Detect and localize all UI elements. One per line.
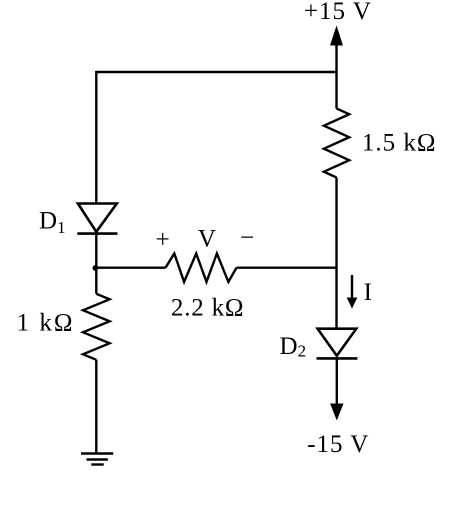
wire D1 to node [95,234,97,269]
svg-text:+: + [156,226,170,253]
wire resistor to right rail (middle right) [237,267,338,269]
wire node to resistor (middle left) [96,267,165,269]
svg-text:D2: D2 [280,333,307,361]
svg-text:−: − [240,225,254,252]
wire node to 1k resistor [95,268,97,294]
diode D1 [77,204,117,234]
current arrow I [347,275,358,309]
wire left rail upper [95,71,97,203]
svg-text:D1: D1 [39,208,66,237]
svg-text:V: V [198,225,216,252]
node junction dot [93,265,99,271]
resistor 2.2 kOhm [166,254,237,282]
diode D2 [317,329,358,359]
ground [81,454,113,465]
resistor 1.5 kOhm [324,109,349,178]
resistor 1 kOhm [83,294,110,360]
svg-text:+15 V: +15 V [304,0,372,25]
wire top rail [96,71,336,73]
wire resistor to ground [95,360,97,454]
supply arrow -15 V [330,358,343,420]
svg-text:1 kΩ: 1 kΩ [17,310,75,337]
wire right rail resistor to D2 [335,178,337,329]
supply arrow +15 V [330,26,343,109]
svg-text:1.5 kΩ: 1.5 kΩ [362,130,437,157]
svg-text:-15 V: -15 V [307,431,369,458]
svg-text:I: I [364,279,372,306]
svg-text:2.2 kΩ: 2.2 kΩ [171,294,244,321]
